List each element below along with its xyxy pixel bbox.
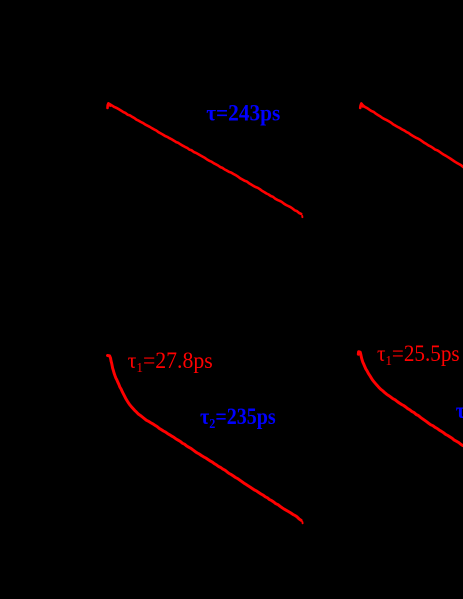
bottom-left decay curve (biexponential) xyxy=(108,356,302,521)
top-right decay curve (single exponential) xyxy=(360,103,463,167)
svg-text:τ2=230ps: τ2=230ps xyxy=(456,398,463,425)
top-right curve peak fill xyxy=(361,106,363,107)
top-left curve end nub xyxy=(301,216,303,217)
top-left decay curve (single exponential, tau=243ps) xyxy=(108,103,302,214)
bottom-left curve end nub xyxy=(301,522,303,523)
bottom-right decay curve (biexponential) xyxy=(358,352,462,446)
top-left curve peak fill xyxy=(108,104,110,107)
svg-text:τ=243ps: τ=243ps xyxy=(206,100,280,126)
